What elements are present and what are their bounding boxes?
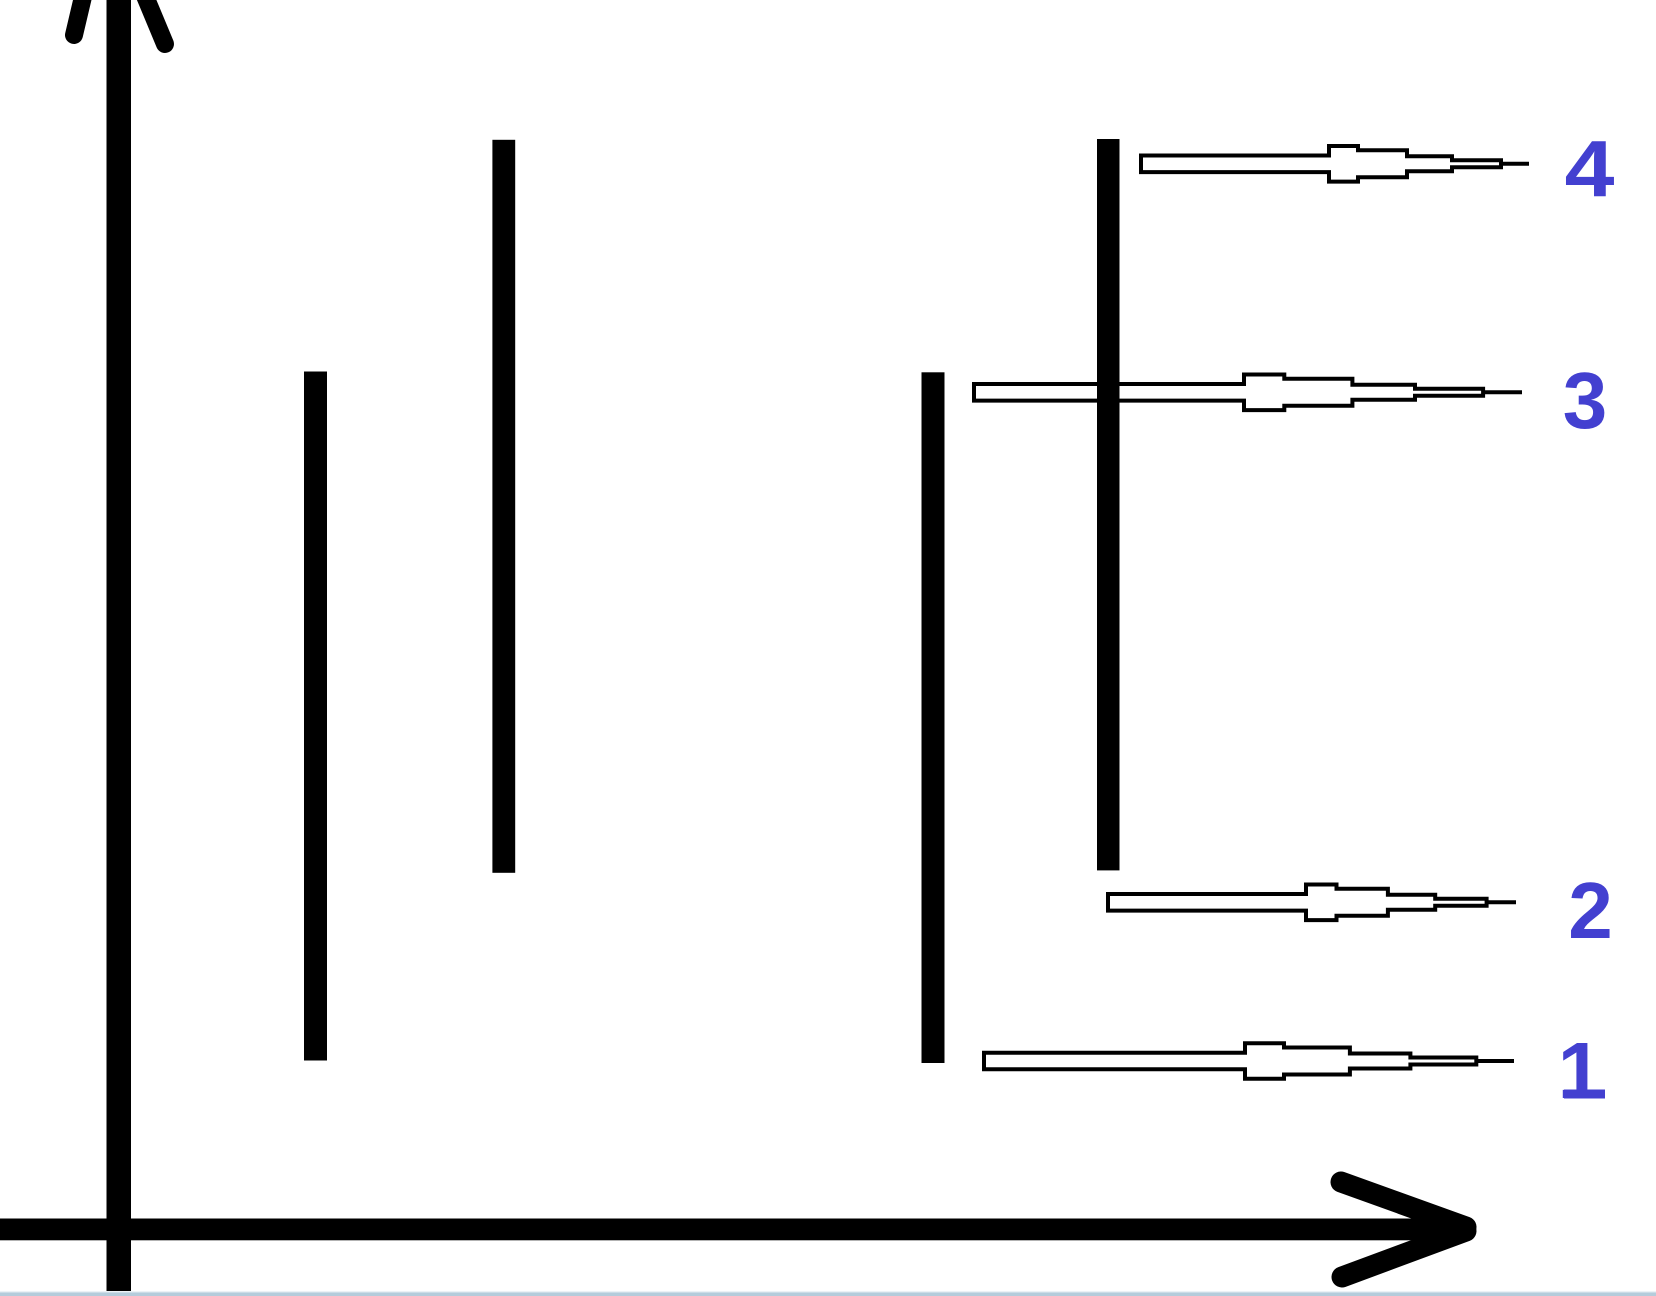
bottom window edge strip	[0, 1291, 1656, 1292]
bar 2	[492, 140, 515, 873]
pointer 2	[1108, 885, 1516, 921]
pointer 3	[974, 375, 1522, 411]
svg-text:4: 4	[1565, 123, 1615, 212]
y-axis arrowhead right barb	[140, 0, 165, 44]
svg-text:3: 3	[1563, 356, 1608, 445]
bar 3	[922, 372, 945, 1063]
pointer 4	[1141, 146, 1529, 182]
label 1	[1558, 1026, 1605, 1115]
y-axis	[107, 0, 132, 1291]
x-axis	[0, 1219, 1466, 1241]
label 4	[1565, 123, 1615, 212]
svg-text:1: 1	[1558, 1026, 1603, 1115]
pointer 1	[984, 1043, 1514, 1079]
y-axis arrowhead left barb	[74, 0, 86, 35]
bar 4	[1097, 139, 1120, 870]
svg-text:2: 2	[1568, 866, 1613, 955]
x-axis arrowhead lower barb	[1342, 1231, 1466, 1277]
x-axis arrowhead upper barb	[1341, 1182, 1466, 1227]
bar 1	[304, 372, 327, 1061]
